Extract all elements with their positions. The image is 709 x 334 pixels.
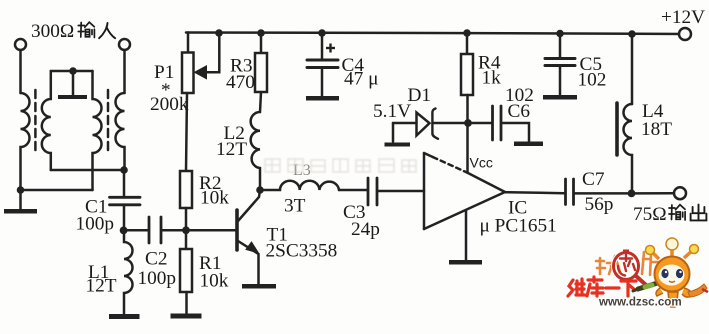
inductor L2 12T [251,92,261,190]
node dot C4 [318,29,326,37]
input terminal left [15,39,26,50]
wire C1 top [123,170,126,197]
center tap bar [58,95,87,99]
node dot transformer upper [120,166,128,174]
ground under R1 [171,314,202,319]
wire C4 top [321,33,324,59]
wire base [186,229,236,232]
power terminal +12V [679,28,691,40]
svg-text:μ PC1651: μ PC1651 [480,216,557,237]
wire C2 right to node B [162,229,186,232]
svg-text:12T: 12T [86,276,117,297]
watermark logo chip char [618,255,635,276]
svg-text:D1: D1 [408,85,432,106]
svg-text:3T: 3T [284,196,306,217]
op-amp U1 left edge [423,153,426,229]
node dot D [464,119,472,127]
wire node D to C6 [468,122,492,125]
wire R2 to node B [185,208,188,249]
watermark logo find-chip text [596,256,620,274]
wire R3 top [260,33,263,53]
svg-text:+12V: +12V [661,7,705,28]
op-amp U1 triangle fill [424,153,505,229]
svg-text:300Ω: 300Ω [31,21,74,42]
ground under L1 [109,314,140,319]
resistor R1 [180,249,192,292]
inductor L3 3T [260,181,339,190]
wire P1 to R2 [186,93,187,171]
node dot transformer lower [17,186,25,194]
wire top rail [186,33,685,35]
ground under C4 [306,96,339,101]
wire R4 to node D [466,95,469,123]
wire node A to C2 [124,229,148,232]
svg-text:C2: C2 [145,249,168,270]
label output Chinese shu [669,205,685,220]
ground under transformer [4,209,37,214]
svg-text:12T: 12T [216,139,247,160]
wire C5 to ground [559,67,562,95]
transformer winding outer-left [21,93,30,190]
label input Chinese ru [99,23,115,38]
wire R4 top [466,33,469,54]
wire C5 top [559,33,562,57]
capacitor C2 plates [148,217,151,243]
node dot R3 [257,29,265,37]
inductor L4 18T [624,104,633,193]
svg-text:102: 102 [578,70,607,91]
faint watermark band [265,159,416,172]
diode D1 5.1V [417,113,430,136]
transistor T1 base bar [235,210,239,250]
wire right terminal down [123,50,126,93]
wire P1 top [187,33,190,53]
wire node D to Vcc pin [466,123,469,173]
svg-text:100p: 100p [76,214,115,235]
transformer core dashed left [34,90,37,150]
wire C3 to op-amp input [378,190,424,193]
node dot output [628,190,636,198]
input terminal right [119,39,130,50]
wire L4 top [631,34,634,104]
transformer winding outer-right [116,93,125,170]
wire D1 ground stub [392,123,395,142]
svg-text:10k: 10k [200,271,229,292]
label output Chinese chu [691,205,707,221]
transistor T1 emitter [238,241,259,284]
resistor R4 [461,54,473,95]
node dot A [120,227,128,235]
wire R1 to ground [185,292,188,314]
node dot B [182,226,190,234]
wire C4 to ground [321,69,324,96]
label input Chinese shu [78,22,94,37]
wire op-amp output to C7 [505,192,564,193]
transformer winding inner-left [42,71,51,170]
wire output node to terminal [632,192,675,195]
ground under C5 [543,95,577,100]
svg-text:100p: 100p [138,268,177,289]
svg-text:200k: 200k [150,94,189,115]
svg-text:C7: C7 [582,169,605,190]
svg-text:1k: 1k [482,68,502,89]
ground under op-amp [449,260,482,265]
wire transformer bottom lower [21,189,93,192]
watermark logo magnifier [614,250,647,286]
wire ground to D1 anode [393,122,417,125]
svg-text:470: 470 [226,72,255,93]
capacitor C6 plates [491,106,494,140]
resistor R3 [255,53,267,92]
watermark logo pencil [633,281,664,291]
transistor T1 collector [238,190,260,221]
svg-text:2SC3358: 2SC3358 [266,241,338,262]
transistor T1 emitter arrow [246,242,259,253]
svg-text:Vcc: Vcc [470,155,493,171]
wire left terminal down [19,50,22,93]
capacitor C3 plates [367,178,370,205]
wire L3 to C3 [339,189,367,192]
potentiometer P1 wiper arrow [195,33,220,79]
wire op-amp ground [465,210,468,260]
svg-text:10k: 10k [200,188,229,209]
node dot L4 [628,30,636,38]
wire transformer bottom upper [51,169,124,172]
wire center tap [51,70,93,73]
watermark logo mascot [646,238,709,308]
svg-text:www.dzsc.com: www.dzsc.com [598,296,682,309]
capacitor C7 plates [564,179,567,205]
svg-text:47 μ: 47 μ [344,69,378,90]
node dot center tap [69,67,77,75]
watermark logo pian char [642,252,659,275]
svg-text:75Ω: 75Ω [633,204,667,225]
inductor L4 core bar [615,103,619,155]
capacitor C5 plates [545,57,575,60]
ground under C6 [514,142,543,147]
output terminal 75ohm [674,187,686,199]
transformer core dashed right [107,90,110,150]
node dot wiper [215,29,223,37]
wire C1 to node A [123,206,126,230]
svg-text:5.1V: 5.1V [373,101,411,122]
svg-text:24p: 24p [351,219,380,240]
capacitor C4 plus sign [326,44,335,53]
capacitor C1 plates [110,196,141,199]
potentiometer P1 [182,53,194,94]
op-amp U1 bottom edge [424,192,505,229]
inductor L1 12T [124,230,133,314]
wire center tap stem [72,71,75,95]
ground under T1 emitter [242,284,276,289]
transformer winding inner-right [93,71,102,190]
ground under D1 [385,143,411,147]
svg-text:C6: C6 [508,101,531,122]
svg-text:56p: 56p [585,194,614,215]
node dot C5 [556,30,564,38]
wire C6 to ground [502,123,529,141]
resistor R2 [180,171,192,208]
capacitor C4 plates [307,59,338,62]
watermark logo weiku red text [568,277,636,296]
node dot collector [256,186,264,194]
svg-text:18T: 18T [641,119,672,140]
wire D1 cathode to node D [433,122,468,125]
op-amp U1 top edge [424,153,433,157]
wire left ground stub [19,190,22,209]
wire C7 to output node [575,192,632,195]
node dot R4 [463,29,471,37]
